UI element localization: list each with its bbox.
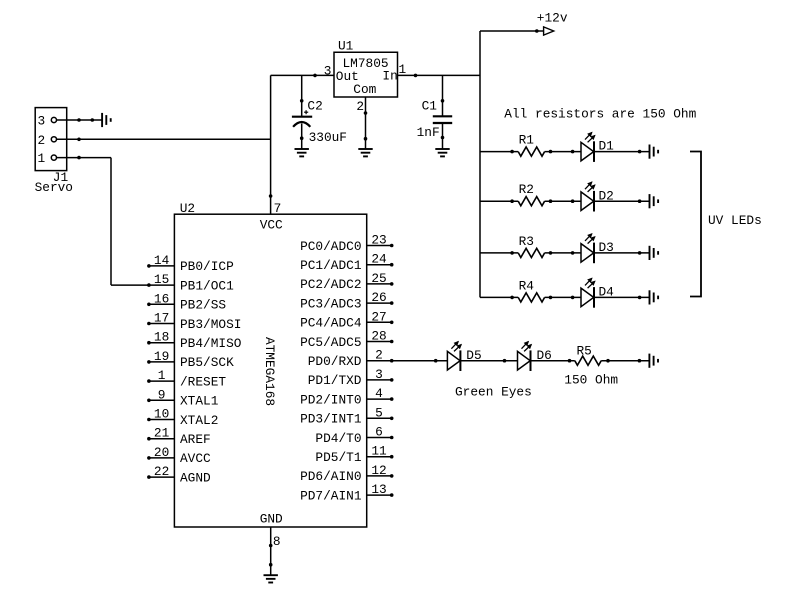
resistor R4 [518,293,544,302]
J1 pin 2 circle [37,133,56,148]
svg-text:R4: R4 [519,278,535,293]
U2 pin name XTAL2 [180,413,218,428]
U2 pin number 9 [158,387,166,402]
svg-text:21: 21 [154,426,170,441]
U2 pin 23 stub (PC0/ADC0) [367,244,393,247]
U2 pin 5 stub (PD3/INT1) [367,417,393,420]
U1 pin number 2 [356,99,364,114]
wire D1 to ground [594,150,650,153]
svg-text:UV LEDs: UV LEDs [708,213,762,228]
svg-text:1nF: 1nF [417,125,440,140]
U2 pin 3 stub (PD1/TXD) [367,379,393,382]
U2 pin name PC5/ADC5 [300,335,361,350]
connector J1 body [35,108,66,171]
U2 pin 25 stub (PC2/ADC2) [367,283,393,286]
wire D4 to ground [594,296,650,299]
U1 pin number 3 [324,63,332,78]
D6 reference label [537,348,552,363]
wire R3 to D3 [545,252,581,255]
svg-text:PB5/SCK: PB5/SCK [180,355,234,370]
J1 pin 3 circle [37,114,56,129]
R3 reference label [519,234,534,249]
svg-text:15: 15 [154,272,169,287]
wire R1 to D1 [545,150,581,153]
svg-text:C1: C1 [422,98,438,113]
svg-text:AVCC: AVCC [180,451,211,466]
U2 pin number 23 [371,233,386,248]
U2 pin name PC3/ADC3 [300,296,361,311]
svg-text:All resistors are 150 Ohm: All resistors are 150 Ohm [504,106,696,121]
ground at D2 (sideways) [650,194,659,208]
U1 reference label [338,39,354,54]
svg-text:PD2/INT0: PD2/INT0 [300,392,361,407]
U2 reference label [180,201,195,216]
resistor R5 [575,356,601,365]
U1 pin number 1 [399,62,407,77]
svg-text:In: In [382,68,397,83]
U2 pin 10 stub (XTAL2) [148,418,175,421]
U2 pin name PD7/AIN1 [300,488,362,503]
U2 pin number 27 [371,309,386,324]
U2 pin 9 stub (XTAL1) [148,399,175,402]
svg-text:3: 3 [37,114,45,129]
LED D3 [581,234,595,263]
U2 pin name PB2/SS [180,298,226,313]
svg-text:PD3/INT1: PD3/INT1 [300,412,362,427]
svg-text:PB0/ICP: PB0/ICP [180,259,234,274]
regulator U1 LM7805 body [334,52,398,97]
svg-text:PC1/ADC1: PC1/ADC1 [300,258,362,273]
svg-text:7: 7 [274,201,282,216]
J1 pin 1 circle [37,151,56,166]
J1 reference label [53,170,69,185]
resistor R1 [518,147,544,156]
svg-text:PD5/T1: PD5/T1 [315,450,361,465]
U2 pin 14 stub (PB0/ICP) [148,265,175,268]
svg-text:PC4/ADC4: PC4/ADC4 [300,316,362,331]
wire bus to R4 [480,296,518,299]
svg-text:PB1/OC1: PB1/OC1 [180,278,234,293]
U2 pin name PB4/MISO [180,336,242,351]
D1 reference label [599,139,615,154]
svg-text:GND: GND [260,511,283,526]
R2 reference label [519,182,534,197]
svg-text:R5: R5 [577,343,592,358]
ground under C2 [295,149,309,156]
svg-text:PB2/SS: PB2/SS [180,298,226,313]
svg-text:Com: Com [353,82,376,97]
resistor R3 [518,248,544,257]
U1 pin name Out [336,69,359,84]
svg-text:23: 23 [371,233,386,248]
C2 value label 330uF [309,130,347,145]
svg-text:5: 5 [375,405,383,420]
R5 reference label [577,343,592,358]
wire R2 to D2 [545,200,581,203]
U2 pin name GND [260,511,283,526]
U2 pin name /RESET [180,374,226,389]
D2 reference label [599,188,614,203]
LED D4 [581,278,595,307]
U2 pin number 22 [154,464,169,479]
U2 pin name PC1/ADC1 [300,258,362,273]
svg-text:AREF: AREF [180,432,211,447]
svg-text:PD6/AIN0: PD6/AIN0 [300,469,361,484]
U2 pin 12 stub (PD6/AIN0) [367,475,393,478]
R5 value label 150 Ohm [564,373,618,388]
U2 pin name PB1/OC1 [180,278,234,293]
U2 pin number 26 [371,290,386,305]
svg-text:2: 2 [375,348,383,363]
ground at D1 (sideways) [650,145,659,159]
svg-text:R3: R3 [519,234,534,249]
svg-text:PC0/ADC0: PC0/ADC0 [300,239,361,254]
U2 pin name PD4/T0 [315,431,361,446]
svg-text:9: 9 [158,387,166,402]
wire D5 to D6 [460,359,517,362]
U2 pin 24 stub (PC1/ADC1) [367,263,393,266]
svg-text:26: 26 [371,290,386,305]
svg-text:C2: C2 [307,98,322,113]
U2 pin name PD1/TXD [308,373,362,388]
svg-text:XTAL1: XTAL1 [180,394,219,409]
U2 pin 1 stub (/RESET) [148,380,175,383]
U2 pin number 18 [154,330,169,345]
U2 pin 15 stub (PB1/OC1) [148,284,175,287]
J1 name label Servo [35,180,73,195]
svg-text:24: 24 [371,252,387,267]
svg-text:1: 1 [37,151,45,166]
U2 pin 26 stub (PC3/ADC3) [367,302,393,305]
wire +12v bus vertical [479,31,481,297]
wire U1 In to +12v bus [398,74,481,77]
U2 pin number 5 [375,405,383,420]
wire J1 pin3 to ground [57,119,103,122]
U2 pin 17 stub (PB3/MOSI) [148,322,175,325]
C1 reference label [422,98,438,113]
wire C1 bottom [441,123,444,149]
svg-text:2: 2 [37,133,45,148]
wire bus to R3 [480,252,518,255]
U2 pin number 2 [375,348,383,363]
svg-text:10: 10 [154,407,169,422]
U2 pin number 28 [371,329,386,344]
svg-text:19: 19 [154,349,169,364]
note: All resistors are 150 Ohm [504,106,696,121]
U2 pin number 4 [375,386,383,401]
LED D1 [581,133,595,162]
U2 pin 11 stub (PD5/T1) [367,455,393,458]
svg-text:25: 25 [371,271,386,286]
ground at J1 pin3 (sideways) [102,113,111,127]
svg-text:PD4/T0: PD4/T0 [315,431,361,446]
U2 pin 21 stub (AREF) [148,437,175,440]
U2 pin name VCC [260,218,283,233]
svg-text:11: 11 [371,444,387,459]
U2 pin 8 number label [273,534,281,549]
wire bus to R1 [480,150,518,153]
U2 pin number 19 [154,349,169,364]
svg-text:18: 18 [154,330,169,345]
svg-text:Green Eyes: Green Eyes [455,384,532,399]
U2 pin name PD2/INT0 [300,392,361,407]
U2 pin 13 stub (PD7/AIN1) [367,494,393,497]
svg-text:PD1/TXD: PD1/TXD [308,373,362,388]
wire U2 GND pin 8 down [269,527,272,575]
U2 pin number 21 [154,426,170,441]
svg-text:3: 3 [375,367,383,382]
svg-text:ATMEGA168: ATMEGA168 [262,337,277,406]
svg-text:4: 4 [375,386,383,401]
LED D6 [518,342,532,371]
U2 pin number 3 [375,367,383,382]
svg-text:PC2/ADC2: PC2/ADC2 [300,277,361,292]
U2 pin name PB5/SCK [180,355,234,370]
svg-text:27: 27 [371,309,386,324]
U2 pin 2 stub (PD0/RXD) [367,359,393,362]
U2 pin 28 stub (PC5/ADC5) [367,340,393,343]
wire R5 to ground [601,359,649,362]
wire bus to R2 [480,200,518,203]
ground under U1 Com [358,149,372,156]
U1 value label LM7805 [343,56,389,71]
svg-text:/RESET: /RESET [180,374,226,389]
U2 pin number 10 [154,407,169,422]
ground at D3 (sideways) [650,246,659,260]
svg-text:PB4/MISO: PB4/MISO [180,336,242,351]
power net +12v wire [480,30,544,33]
wire C2 bottom [300,124,303,150]
U2 pin number 12 [371,463,386,478]
U2 pin name PD6/AIN0 [300,469,361,484]
U2 pin number 11 [371,444,387,459]
U2 pin number 20 [154,445,169,460]
wire J1 pin2 to +5V rail [57,138,271,141]
U2 pin 7 number label [274,201,282,216]
U2 pin name PC4/ADC4 [300,316,362,331]
LED D5 [447,342,461,371]
U2 pin number 6 [375,425,383,440]
wire J1 pin1 to U2 PB1 [57,156,149,285]
power symbol +12v arrow [544,27,554,35]
C1 value label 1nF [417,125,440,140]
U2 pin name PC2/ADC2 [300,277,361,292]
resistor R2 [518,197,544,206]
wire U2 PD0 to D5 [392,359,448,362]
U2 pin 6 stub (PD4/T0) [367,436,393,439]
U2 pin number 14 [154,253,170,268]
U2 pin number 13 [371,482,386,497]
U2 pin name PD5/T1 [315,450,361,465]
R4 reference label [519,278,535,293]
U2 pin name AREF [180,432,211,447]
wire C1 top [441,75,444,116]
U2 pin 4 stub (PD2/INT0) [367,398,393,401]
U2 pin name PD0/RXD [308,354,362,369]
ground at R5 (sideways) [649,354,658,368]
svg-text:AGND: AGND [180,470,211,485]
svg-text:8: 8 [273,534,281,549]
svg-text:2: 2 [356,99,364,114]
net label +12v [537,10,568,25]
wire +5V rail vertical to U2 VCC [269,75,272,214]
svg-text:U1: U1 [338,39,354,54]
svg-text:R2: R2 [519,182,534,197]
wire R4 to D4 [545,296,581,299]
svg-text:28: 28 [371,329,386,344]
U2 pin number 1 [158,368,166,383]
svg-text:PD0/RXD: PD0/RXD [308,354,362,369]
U2 pin 16 stub (PB2/SS) [148,303,175,306]
U2 pin name PB3/MOSI [180,317,241,332]
wire D6 to R5 [531,359,575,362]
svg-text:20: 20 [154,445,169,460]
svg-text:17: 17 [154,311,169,326]
U2 pin number 24 [371,252,387,267]
svg-text:13: 13 [371,482,386,497]
U2 pin name PC0/ADC0 [300,239,361,254]
D4 reference label [599,285,615,300]
wire U1 Com down [364,97,367,149]
svg-text:22: 22 [154,464,169,479]
U2 pin name XTAL1 [180,394,219,409]
svg-text:XTAL2: XTAL2 [180,413,218,428]
svg-text:+12v: +12v [537,10,568,25]
U2 pin name PD3/INT1 [300,412,362,427]
svg-text:1: 1 [158,368,166,383]
D3 reference label [599,240,614,255]
U2 pin 22 stub (AGND) [148,476,175,479]
ground under U2 pin 8 [264,575,278,582]
capacitor C2 (polarized) [292,110,312,127]
U2 pin name PB0/ICP [180,259,234,274]
U2 value label ATMEGA168 (vertical) [262,337,277,406]
svg-text:PC5/ADC5: PC5/ADC5 [300,335,361,350]
ground under C1 [435,149,449,156]
U2 pin number 15 [154,272,169,287]
wire D2 to ground [594,200,650,203]
label Green Eyes [455,384,532,399]
svg-text:150 Ohm: 150 Ohm [564,373,618,388]
svg-text:VCC: VCC [260,218,283,233]
U2 pin number 25 [371,271,386,286]
ground at D4 (sideways) [650,290,659,304]
group label UV LEDs [708,213,762,228]
U2 pin name AGND [180,470,211,485]
svg-text:U2: U2 [180,201,195,216]
U2 pin 18 stub (PB4/MISO) [148,341,175,344]
svg-text:PD7/AIN1: PD7/AIN1 [300,488,362,503]
capacitor C1 [433,116,452,123]
wire C2 top [300,75,303,116]
D5 reference label [466,348,481,363]
svg-text:14: 14 [154,253,170,268]
LED D2 [581,182,595,211]
wire D3 to ground [594,252,650,255]
U1 pin name In [382,68,397,83]
U2 pin number 17 [154,311,169,326]
U2 pin number 16 [154,291,169,306]
svg-text:PB3/MOSI: PB3/MOSI [180,317,241,332]
U2 pin name AVCC [180,451,211,466]
svg-text:R1: R1 [519,133,535,148]
IC U2 ATMEGA168 body [174,214,366,527]
C2 reference label [307,98,322,113]
svg-text:PC3/ADC3: PC3/ADC3 [300,296,361,311]
svg-text:Servo: Servo [35,180,73,195]
U2 pin 20 stub (AVCC) [148,457,175,460]
svg-text:6: 6 [375,425,383,440]
R1 reference label [519,133,535,148]
U2 pin 27 stub (PC4/ADC4) [367,321,393,324]
svg-text:12: 12 [371,463,386,478]
U1 pin name Com [353,82,376,97]
svg-text:16: 16 [154,291,169,306]
U2 pin 19 stub (PB5/SCK) [148,361,175,364]
svg-text:330uF: 330uF [309,130,347,145]
wire U1 Out to +5V rail [271,74,334,77]
bracket for UV LEDs group [690,152,701,297]
